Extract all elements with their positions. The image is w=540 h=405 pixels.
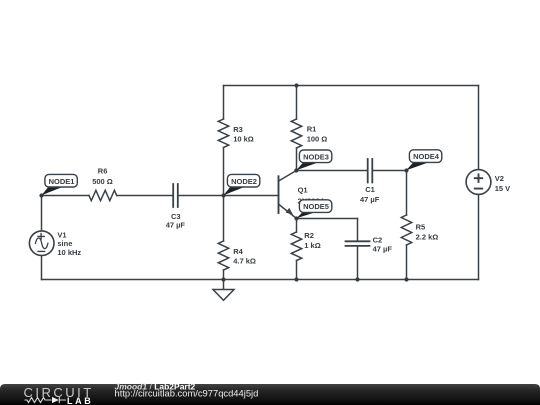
svg-text:C1: C1 — [365, 185, 375, 194]
wire C1 to NODE4 — [372, 170, 406, 172]
junction bottom rail R2 — [294, 277, 298, 281]
junction top rail R1 — [294, 83, 298, 87]
wire collector row NODE3 to C1 — [296, 170, 367, 172]
capacitor C2 — [346, 241, 370, 246]
svg-text:2.2 kΩ: 2.2 kΩ — [416, 233, 439, 242]
svg-text:NODE2: NODE2 — [231, 177, 257, 186]
value label C1 — [360, 185, 380, 204]
svg-text:NODE3: NODE3 — [303, 152, 329, 161]
junction bottom rail C2 — [355, 277, 359, 281]
wire V2 branch upper — [478, 86, 480, 170]
svg-text:100 Ω: 100 Ω — [307, 135, 328, 144]
svg-text:R4: R4 — [233, 247, 243, 256]
wire R3 branch upper — [223, 86, 225, 120]
wire V2 branch lower — [478, 194, 480, 279]
wire R2 branch upper — [296, 219, 298, 233]
wire bottom rail — [42, 279, 479, 281]
resistor R5 — [401, 215, 411, 245]
svg-text:10 kΩ: 10 kΩ — [233, 135, 254, 144]
node NODE3 — [296, 150, 332, 170]
voltage source V2 — [466, 170, 491, 195]
node NODE5 — [297, 200, 332, 219]
wire input row NODE1 to R6 — [42, 195, 90, 197]
value label R4 — [233, 247, 256, 265]
wire R1 to collector node — [296, 148, 298, 171]
resistor R3 — [218, 119, 228, 148]
wire R6 to C3 — [117, 195, 174, 197]
junction bottom rail R4 — [221, 277, 225, 281]
svg-text:LAB: LAB — [67, 396, 93, 405]
svg-text:500 Ω: 500 Ω — [92, 177, 113, 186]
value label R1 — [307, 125, 328, 144]
ground — [213, 280, 234, 301]
resistor R6 — [89, 190, 117, 200]
svg-text:R1: R1 — [307, 125, 317, 134]
node NODE1 — [42, 174, 78, 195]
svg-text:C2: C2 — [373, 235, 383, 244]
wire R1 branch upper — [296, 86, 298, 120]
svg-text:NODE1: NODE1 — [49, 177, 75, 186]
wire top rail — [224, 85, 479, 87]
svg-text:R2: R2 — [304, 231, 314, 240]
svg-text:47 µF: 47 µF — [166, 221, 186, 230]
resistor R4 — [218, 241, 228, 270]
node NODE4 junction — [404, 168, 408, 172]
svg-text:sine: sine — [57, 239, 72, 248]
value label R2 — [304, 231, 320, 250]
transistor Q1 — [279, 171, 297, 219]
wire emitter row NODE5 to C2 — [297, 218, 358, 220]
resistor R2 — [291, 232, 301, 261]
svg-text:V2: V2 — [495, 174, 504, 183]
value label V2 — [495, 174, 510, 193]
value label R5 — [416, 222, 439, 241]
node NODE2 — [224, 174, 260, 195]
node NODE5 junction — [294, 216, 298, 220]
wire R5 branch upper — [406, 171, 408, 216]
junction bottom rail R5 — [404, 277, 408, 281]
node NODE1 junction — [39, 193, 43, 197]
svg-text:15 V: 15 V — [495, 184, 510, 193]
voltage source V1 sine — [29, 231, 54, 256]
svg-text:R3: R3 — [233, 125, 243, 134]
wire R3 branch lower — [223, 148, 225, 196]
value label R6 — [92, 167, 113, 186]
svg-text:47 µF: 47 µF — [360, 195, 380, 204]
node NODE2 junction — [221, 193, 225, 197]
value label V1 — [57, 230, 81, 257]
svg-text:47 µF: 47 µF — [373, 245, 393, 254]
value label R3 — [233, 125, 254, 144]
wire C2 to bottom rail — [357, 246, 359, 280]
wire C2 branch upper — [357, 219, 359, 242]
footer bar — [0, 384, 540, 405]
svg-text:http://circuitlab.com/c977qcd4: http://circuitlab.com/c977qcd44j5jd — [115, 388, 259, 399]
capacitor C1 — [368, 159, 373, 183]
node NODE4 — [406, 150, 442, 171]
svg-text:4.7 kΩ: 4.7 kΩ — [233, 256, 256, 265]
svg-text:R5: R5 — [416, 222, 426, 231]
wire NODE1 branch down to V1 — [41, 196, 43, 232]
wire C3 to NODE2 — [178, 195, 224, 197]
capacitor C3 — [173, 184, 178, 207]
wire R2 to bottom rail — [296, 261, 298, 280]
svg-text:NODE4: NODE4 — [413, 152, 440, 161]
wire R4 branch upper — [223, 196, 225, 242]
value label Q1 — [298, 185, 325, 205]
svg-text:10 kHz: 10 kHz — [57, 248, 81, 257]
wire R4 to bottom rail — [223, 270, 225, 280]
svg-text:Q1: Q1 — [298, 185, 308, 194]
svg-text:1 kΩ: 1 kΩ — [304, 241, 320, 250]
svg-text:V1: V1 — [57, 230, 66, 239]
logo resistor-diode glyph — [25, 397, 67, 403]
wire V1 to bottom rail — [41, 256, 43, 280]
svg-text:NODE5: NODE5 — [303, 202, 329, 211]
wire R5 to bottom rail — [406, 245, 408, 280]
svg-text:R6: R6 — [98, 167, 108, 176]
node NODE3 junction — [294, 168, 298, 172]
value label C3 — [166, 212, 186, 230]
resistor R1 — [291, 119, 301, 148]
wire NODE2 to Q1 base — [224, 195, 279, 197]
value label C2 — [373, 235, 393, 253]
